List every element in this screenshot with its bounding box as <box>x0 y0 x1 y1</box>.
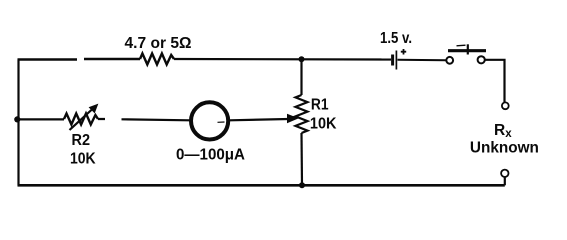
wire (bottom bus) <box>18 184 505 187</box>
svg-text:1.5 v.: 1.5 v. <box>380 30 412 47</box>
svg-text:0—100μA: 0—100μA <box>176 146 245 163</box>
svg-text:10K: 10K <box>70 151 96 168</box>
wire (top, left of series resistor; scan gap at x77-84) <box>18 58 141 61</box>
wire (switch to upper Rx terminal, right corner) <box>485 60 505 103</box>
wire (meter to R1 wiper arrow) <box>230 119 289 120</box>
wire (lower Rx terminal stub to bottom bus) <box>504 177 506 185</box>
battery B1 (1.5 V cell; short thick negative plate, tall thin positive plate) <box>393 49 407 70</box>
terminal (Rx lower, open circle) <box>501 170 508 177</box>
wire (top, resistor to battery) <box>174 58 391 61</box>
wire (top node down to R1) <box>300 59 302 95</box>
resistor 4.7-or-5-ohm (series zigzag on top wire) <box>140 54 174 65</box>
rheostat R2 (zigzag with diagonal arrow) <box>64 105 98 131</box>
node (junction of left bus and wiper wire) <box>14 116 20 122</box>
wire (left bus to rheostat R2) <box>17 118 64 120</box>
terminal (Rx upper, open circle) <box>502 102 509 109</box>
node (junction of bottom bus and R1 branch) <box>299 182 305 188</box>
wire (battery to push-button switch) <box>398 59 447 62</box>
potentiometer R1 (vertical zigzag) <box>296 95 308 133</box>
wire (left vertical bus) <box>17 60 19 186</box>
node (junction of top wire and R1 branch) <box>299 56 305 62</box>
meter polarity tick <box>218 121 225 123</box>
meter M1 (microammeter, circle) <box>191 102 228 139</box>
wire (R1 down to bottom bus) <box>300 133 303 185</box>
wire (R2 to meter; scan gap at x105-121) <box>98 119 190 120</box>
wiper arrow into R1 <box>288 115 298 123</box>
svg-text:Unknown: Unknown <box>470 140 539 157</box>
switch S1 (normally-open push button) <box>446 44 486 63</box>
svg-text:R1: R1 <box>311 97 329 114</box>
svg-text:R2: R2 <box>72 132 91 149</box>
svg-text:10K: 10K <box>310 115 337 132</box>
svg-text:4.7 or 5Ω: 4.7 or 5Ω <box>125 35 192 52</box>
